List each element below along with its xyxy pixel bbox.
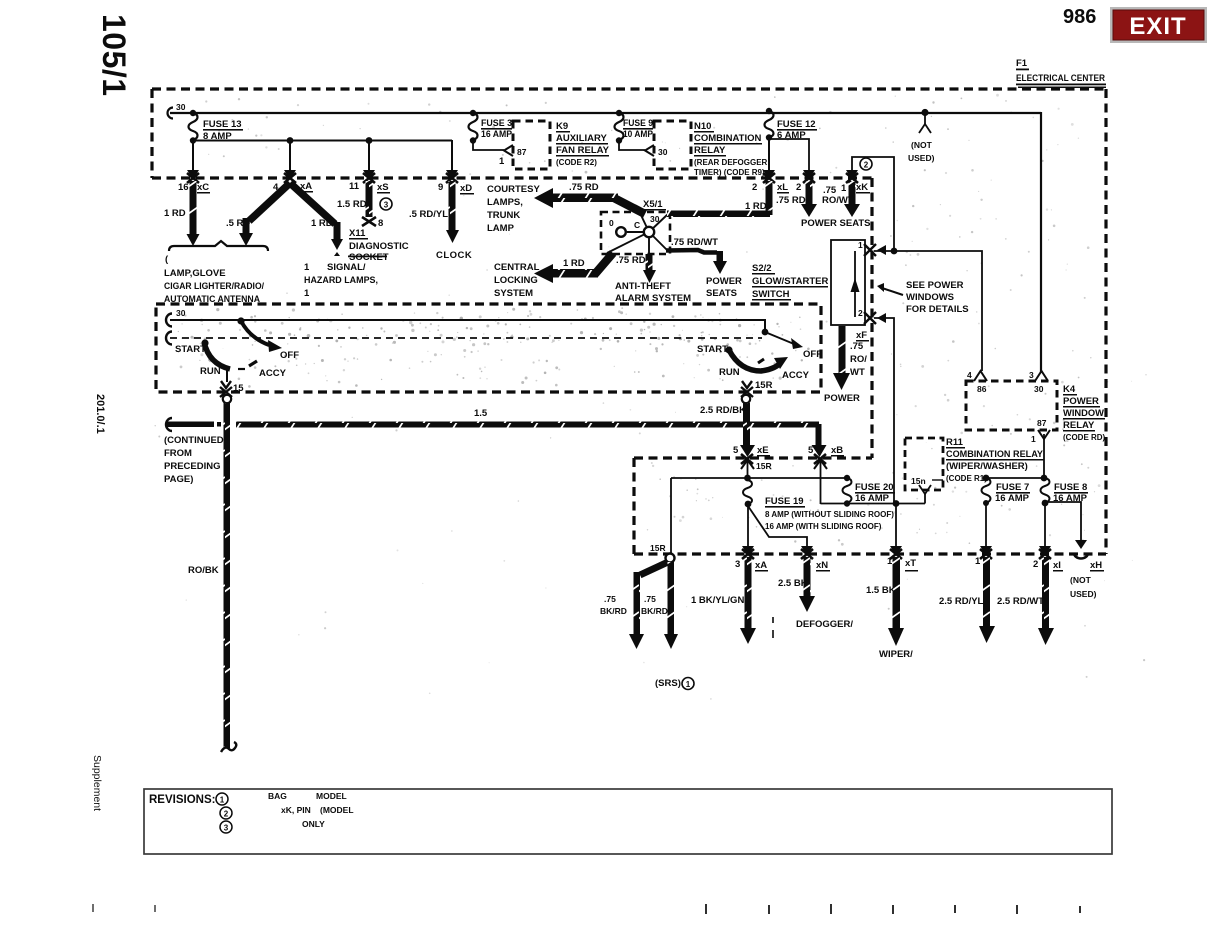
- terminal xT (1): [890, 546, 902, 559]
- svg-text:N10: N10: [694, 121, 711, 132]
- svg-text:K9: K9: [556, 121, 568, 132]
- SRS splice circle (15R): [666, 554, 675, 563]
- cable 1 RD from xL into X5/1: [667, 181, 773, 217]
- terminal xS (11): [363, 170, 375, 183]
- svg-text:START: START: [697, 344, 728, 355]
- terminal xB (5): [814, 454, 826, 464]
- wire: fuse7/fuse8 top bus: [986, 477, 1044, 479]
- wire: xB down to fuse20 bus: [820, 461, 822, 504]
- svg-text:LAMP,GLOVE: LAMP,GLOVE: [164, 268, 226, 279]
- svg-text:OFF: OFF: [280, 350, 299, 361]
- label F1 ELECTRICAL CENTER: [1016, 58, 1106, 88]
- svg-text:201.0/.1: 201.0/.1: [94, 394, 106, 434]
- S2/2 ignition switch dashed box: [156, 304, 821, 392]
- terminal 15 (ignition left): [220, 381, 232, 397]
- svg-text:xE: xE: [757, 445, 769, 456]
- svg-text:30: 30: [1034, 384, 1044, 394]
- label (SRS) circled 1: [655, 678, 694, 690]
- svg-text:AUTOMATIC ANTENNA: AUTOMATIC ANTENNA: [164, 294, 260, 305]
- svg-text:.75 RD/WT: .75 RD/WT: [671, 237, 718, 248]
- svg-text:xC: xC: [197, 182, 209, 193]
- svg-text:POWER: POWER: [706, 276, 742, 287]
- svg-text:ACCY: ACCY: [782, 370, 810, 381]
- label 1 xT: [887, 556, 918, 572]
- terminal xE (5): [741, 454, 753, 464]
- svg-text:COMBINATION RELAY: COMBINATION RELAY: [946, 449, 1044, 460]
- junction dot fuse19 bottom: [745, 501, 752, 508]
- bracket over lamp-glove group: [169, 241, 268, 251]
- fork pin K4 pin3: [1035, 371, 1048, 381]
- svg-text:(NOT: (NOT: [911, 140, 933, 150]
- label .75 BK/RD (left): [600, 594, 627, 616]
- svg-text:X5/1: X5/1: [643, 199, 663, 210]
- F1 electrical center dashed outline (top box): [152, 89, 1106, 554]
- svg-text:FAN RELAY: FAN RELAY: [556, 145, 610, 156]
- svg-text:2.5 BK: 2.5 BK: [778, 578, 808, 589]
- svg-text:4: 4: [273, 182, 279, 193]
- svg-text:xK: xK: [856, 182, 868, 193]
- svg-text:2: 2: [224, 810, 229, 819]
- wire: connector pin2 xF drop to lower box: [874, 318, 894, 503]
- svg-text:FUSE 8: FUSE 8: [1054, 482, 1087, 493]
- svg-text:CIGAR LIGHTER/RADIO/: CIGAR LIGHTER/RADIO/: [164, 281, 264, 292]
- cable 2.5 RD/WT from xI: [1038, 557, 1054, 645]
- svg-text:CLOCK: CLOCK: [436, 250, 472, 261]
- cable 2.5 BK from xN to defogger: [799, 557, 815, 612]
- svg-text:FUSE 9: FUSE 9: [623, 118, 653, 129]
- svg-text:xF: xF: [856, 330, 867, 341]
- svg-text:30: 30: [658, 147, 668, 157]
- ignition left: ACCY tick: [249, 361, 257, 366]
- wire: drop to xT: [895, 504, 897, 550]
- hook at dashed wire: [166, 332, 172, 345]
- svg-text:EXIT: EXIT: [1129, 13, 1186, 40]
- svg-text:FUSE 7: FUSE 7: [996, 482, 1029, 493]
- svg-text:ACCY: ACCY: [259, 368, 287, 379]
- svg-text:(SRS): (SRS): [655, 678, 681, 689]
- label .75 BK/RD (right): [641, 594, 668, 616]
- cable .75 RD from terminal 2 to power seats: [801, 181, 817, 217]
- X5/1 pin labels: [609, 214, 660, 230]
- svg-text:CENTRAL: CENTRAL: [494, 262, 540, 273]
- wire: lower-box 15R bus: [671, 477, 847, 479]
- label R11 relay: [911, 437, 1044, 486]
- connector pin X (power windows pin 2): [864, 312, 886, 324]
- svg-text:S2/2: S2/2: [752, 263, 772, 274]
- relay K9 dashed box: [513, 121, 550, 169]
- svg-text:2: 2: [1033, 559, 1038, 570]
- svg-text:COURTESY: COURTESY: [487, 184, 540, 195]
- svg-text:SEATS: SEATS: [706, 288, 737, 299]
- connector pin X (power windows pin 1): [864, 244, 886, 256]
- striped bus (right section to xB): [749, 422, 827, 458]
- svg-text:LAMPS,: LAMPS,: [487, 197, 523, 208]
- svg-text:6 AMP: 6 AMP: [777, 130, 806, 141]
- svg-text:10 AMP: 10 AMP: [623, 129, 654, 140]
- svg-text:Supplement: Supplement: [91, 755, 103, 811]
- wire: fuse13 sub-bus: [193, 140, 452, 142]
- svg-text:16 AMP (WITH SLIDING ROOF): 16 AMP (WITH SLIDING ROOF): [765, 522, 882, 531]
- label 16 xC: [178, 182, 210, 194]
- svg-text:15n: 15n: [911, 476, 926, 486]
- svg-text:1.5 RD: 1.5 RD: [337, 199, 367, 210]
- terminal 15R (ignition right): [741, 381, 753, 397]
- pin arrow N10 pin 30: [645, 145, 654, 156]
- up-arrow under xE terminal: [741, 460, 754, 469]
- svg-text:16 AMP: 16 AMP: [995, 493, 1030, 504]
- F1 lower fuse box dashed outline: [634, 458, 1106, 554]
- ignition left: START-RUN contact arc: [204, 342, 230, 369]
- wire: fuse20 bottom bus to R11: [821, 503, 926, 505]
- junction dot xA drop: [287, 137, 294, 144]
- svg-text:FUSE 19: FUSE 19: [765, 496, 804, 507]
- fuse F8 symbol: [1041, 478, 1089, 504]
- up-arrow under xB terminal: [814, 460, 827, 469]
- svg-text:xI: xI: [1053, 560, 1061, 571]
- revisions box: [144, 789, 1112, 854]
- svg-text:(WIPER/WASHER): (WIPER/WASHER): [946, 461, 1028, 472]
- ignition left: pivot wire to terminal 15: [226, 369, 228, 382]
- svg-text:(REAR DEFOGGER: (REAR DEFOGGER: [694, 158, 768, 167]
- label central locking system: [494, 262, 540, 299]
- svg-text:COMBINATION: COMBINATION: [694, 133, 762, 144]
- connector X5/1 star hub: [607, 213, 668, 255]
- label N10 relay: [694, 121, 768, 177]
- junction dot xT drop: [893, 500, 900, 507]
- svg-text:RO/: RO/: [850, 354, 867, 365]
- svg-text:BK/RD: BK/RD: [641, 606, 668, 616]
- fork pin R11: [919, 485, 931, 494]
- svg-text:16 AMP: 16 AMP: [855, 493, 890, 504]
- wire: drop to xD: [451, 140, 453, 173]
- svg-text:986: 986: [1063, 6, 1096, 28]
- cable Y-split from xA (.5 RD / 1 RD): [239, 183, 343, 256]
- svg-text:3: 3: [224, 824, 229, 833]
- svg-text:16 AMP: 16 AMP: [1053, 493, 1088, 504]
- connector circle below 15: [223, 395, 231, 403]
- svg-text:2.5 RD/BK: 2.5 RD/BK: [700, 405, 746, 416]
- label X11 DIAGNOSTIC SOCKET: [348, 228, 409, 263]
- svg-text:BAG: BAG: [268, 791, 287, 801]
- svg-text:.75: .75: [644, 594, 656, 604]
- continued-from stub bar: [167, 422, 221, 428]
- label power seats (X5/1): [706, 276, 742, 299]
- hook at ignition 30 wire: [166, 314, 172, 327]
- svg-text:FUSE 13: FUSE 13: [203, 119, 242, 130]
- terminal 1 (2.5 RD/YL): [980, 546, 992, 559]
- note see power windows for details: [877, 280, 969, 315]
- stub wire (not used): [924, 113, 926, 124]
- label 3 xA (lower): [735, 559, 768, 572]
- wire: xE down to fuse19 bus: [747, 461, 749, 479]
- svg-text:ELECTRICAL CENTER: ELECTRICAL CENTER: [1016, 73, 1105, 84]
- label signal hazard lamps: [304, 262, 378, 299]
- wire: main 30-bus across top of electrical center: [170, 112, 1041, 114]
- wire: fuse19 branch to xN: [748, 506, 807, 548]
- svg-text:xD: xD: [460, 183, 472, 194]
- svg-text:(CONTINUED: (CONTINUED: [164, 435, 224, 446]
- cable 1.5 RD from xS to X11 socket pin 8: [362, 181, 376, 226]
- wire: fuse8 bottom to xI: [1044, 503, 1046, 549]
- wire: inside power-windows connector: [854, 251, 856, 317]
- svg-text:MODEL: MODEL: [316, 791, 347, 801]
- X5/1 hub circle: [644, 227, 654, 237]
- wire: fuse7 bottom to terminal 1: [985, 503, 987, 549]
- svg-text:1 RD: 1 RD: [164, 208, 186, 219]
- cable .5 RD/YL from xD to clock: [446, 181, 459, 243]
- svg-text:1 RD: 1 RD: [745, 201, 767, 212]
- svg-text:REVISIONS:: REVISIONS:: [149, 794, 215, 806]
- svg-text:.75 RD: .75 RD: [776, 195, 806, 206]
- svg-text:xS: xS: [377, 182, 389, 193]
- terminal xK (1): [846, 170, 858, 183]
- svg-text:4: 4: [967, 370, 972, 380]
- wire: branch to xH (not used): [1045, 502, 1081, 546]
- label 9 xD: [438, 182, 474, 195]
- fuse F3 symbol: [469, 110, 513, 144]
- cable 1 BK/YL/GN from xA: [740, 557, 756, 644]
- label continued from preceding page: [164, 435, 224, 485]
- label K4 relay: [1063, 384, 1106, 442]
- label S2/2 glow starter switch: [752, 263, 828, 301]
- revisions text: [149, 791, 354, 833]
- svg-text:(CODE R2): (CODE R2): [556, 158, 597, 167]
- junction dot xS drop: [366, 137, 373, 144]
- wire: xK riser to K4 pin 4 feed: [852, 157, 894, 251]
- svg-text:.75: .75: [604, 594, 616, 604]
- svg-text:SIGNAL/: SIGNAL/: [327, 262, 366, 273]
- striped bus 1.5 (left section): [236, 422, 745, 428]
- wire: ignition 30 feed: [170, 320, 765, 331]
- circled note 2 at xK: [860, 158, 872, 170]
- label 5 xB: [808, 445, 844, 457]
- ignition left: dash before ACCY: [238, 368, 245, 370]
- svg-text:2: 2: [858, 308, 863, 318]
- svg-text:ONLY: ONLY: [302, 819, 325, 829]
- svg-text:1 BK/YL/GN: 1 BK/YL/GN: [691, 595, 744, 606]
- label anti-theft alarm system: [615, 281, 691, 304]
- cable 1 RD from xC to lamp group: [187, 181, 200, 246]
- svg-text:15R: 15R: [755, 380, 773, 391]
- svg-text:8 AMP: 8 AMP: [203, 131, 232, 142]
- fuse F12 symbol: [765, 108, 818, 141]
- svg-text:1: 1: [1031, 434, 1036, 444]
- terminal xN: [801, 546, 813, 559]
- svg-text:1: 1: [304, 262, 310, 273]
- cable .75 RO/WT from xK to power seats: [844, 181, 860, 217]
- svg-text:.75 RD: .75 RD: [569, 182, 599, 193]
- svg-text:FUSE 12: FUSE 12: [777, 119, 816, 130]
- svg-text:SWITCH: SWITCH: [752, 289, 790, 300]
- power windows connector box (solid): [831, 240, 865, 325]
- svg-text:1 RD: 1 RD: [563, 258, 585, 269]
- svg-text:xA: xA: [755, 560, 767, 571]
- svg-text:POWER: POWER: [1063, 396, 1099, 407]
- svg-text:FUSE 20: FUSE 20: [855, 482, 894, 493]
- svg-text:FOR DETAILS: FOR DETAILS: [906, 304, 969, 315]
- terminal xL (2): [763, 170, 775, 183]
- ignition right: ACCY tick: [758, 359, 764, 363]
- connector X5/1 dashed box: [601, 212, 670, 254]
- svg-text:.5 RD/YL: .5 RD/YL: [409, 209, 448, 220]
- svg-text:FUSE 3: FUSE 3: [481, 118, 512, 129]
- svg-text:PAGE): PAGE): [164, 474, 193, 485]
- svg-text:3: 3: [1029, 370, 1034, 380]
- svg-text:30: 30: [176, 308, 186, 318]
- svg-text:TIMER) (CODE R9): TIMER) (CODE R9): [694, 168, 765, 177]
- wire: riser to R11 pin: [924, 494, 926, 504]
- label 11 xS: [349, 181, 390, 194]
- svg-text:2.5 RD/YL: 2.5 RD/YL: [939, 596, 984, 607]
- label xN: [816, 560, 830, 572]
- svg-text:ANTI-THEFT: ANTI-THEFT: [615, 281, 671, 292]
- cable .75 BK/RD from SRS splice (right): [664, 562, 678, 649]
- svg-text:2.5 RD/WT: 2.5 RD/WT: [997, 596, 1044, 607]
- label .75 RO/ WT (xF): [850, 341, 867, 378]
- junction dot xE bus: [744, 475, 751, 482]
- svg-text:8 AMP (WITHOUT SLIDING ROOF): 8 AMP (WITHOUT SLIDING ROOF): [765, 510, 894, 519]
- svg-text:(CODE R1): (CODE R1): [946, 474, 987, 483]
- big arrow to courtesy lamps (.75 RD): [534, 188, 645, 214]
- label 4 xA: [273, 181, 313, 193]
- svg-text:X11: X11: [349, 228, 366, 239]
- svg-text:16 AMP: 16 AMP: [481, 129, 513, 140]
- fork pin K4 pin4: [974, 371, 987, 381]
- fuse F13 symbol: [189, 110, 244, 144]
- bottom alignment tick marks: [93, 904, 1080, 914]
- fuse F7 symbol: [982, 478, 1031, 504]
- feed-through arrow inside connector: [851, 278, 860, 292]
- wire: connector pin1 across to K4 pin4 drop: [874, 251, 982, 371]
- svg-text:9: 9: [438, 182, 443, 193]
- svg-text:RO/BK: RO/BK: [188, 565, 219, 576]
- wire: fuse12 branch to terminal 2: [769, 139, 809, 171]
- cable .75 RD to anti-theft alarm: [643, 254, 656, 283]
- svg-text:5: 5: [808, 445, 814, 456]
- svg-text:1 RD: 1 RD: [311, 218, 333, 229]
- svg-text:xL: xL: [777, 182, 788, 193]
- hook at left end of 30-bus: [168, 108, 174, 119]
- svg-text:1: 1: [841, 183, 847, 194]
- cable .75 RO/WT POWER feed (xF): [833, 326, 850, 390]
- wire: fuse19 bottom to xA: [747, 503, 749, 550]
- dashed wire inside ignition box: [170, 337, 762, 339]
- fuse F19 symbol: [743, 480, 894, 531]
- svg-text:RELAY: RELAY: [1063, 420, 1095, 431]
- label .75 1 RO/WT xK: [822, 182, 870, 206]
- svg-text:105/1: 105/1: [96, 14, 132, 97]
- svg-text:GLOW/STARTER: GLOW/STARTER: [752, 276, 828, 287]
- big arrow to central locking system (1 RD): [534, 253, 613, 283]
- svg-text:RUN: RUN: [719, 367, 740, 378]
- svg-text:WINDOW: WINDOW: [1063, 408, 1104, 419]
- svg-text:87: 87: [1037, 418, 1047, 428]
- svg-text:OFF: OFF: [803, 349, 822, 360]
- svg-text:BK/RD: BK/RD: [600, 606, 627, 616]
- X5/1 pin 0 circle: [616, 227, 626, 237]
- svg-text:C: C: [634, 220, 640, 230]
- svg-text:DIAGNOSTIC: DIAGNOSTIC: [349, 241, 409, 252]
- svg-text:1: 1: [220, 796, 225, 805]
- label pin 2 xF: [856, 308, 869, 342]
- label 2 xI: [1033, 559, 1063, 572]
- cable RO/BK long drop: [221, 403, 236, 752]
- svg-text:30: 30: [176, 102, 186, 112]
- svg-text:8: 8: [378, 218, 383, 229]
- svg-text:TRUNK: TRUNK: [487, 210, 520, 221]
- wire: drop to xA: [289, 140, 291, 173]
- connector circle below 15R: [742, 395, 750, 403]
- svg-text:RO/WT: RO/WT: [822, 195, 854, 206]
- svg-text:SEE POWER: SEE POWER: [906, 280, 964, 291]
- junction dot fuse8 bottom: [1042, 500, 1049, 507]
- svg-text:2: 2: [796, 182, 801, 193]
- svg-text:F1: F1: [1016, 58, 1028, 69]
- svg-text:ALARM SYSTEM: ALARM SYSTEM: [615, 293, 691, 304]
- junction dot at (894,251): [891, 248, 898, 255]
- svg-text:.75 RD: .75 RD: [616, 255, 646, 266]
- svg-text:15R: 15R: [756, 461, 772, 471]
- svg-text:1: 1: [975, 556, 981, 567]
- svg-text:1: 1: [858, 240, 863, 250]
- svg-text:1: 1: [887, 556, 893, 567]
- svg-text:2: 2: [864, 161, 869, 170]
- svg-text:POWER: POWER: [824, 393, 860, 404]
- svg-text:FROM: FROM: [164, 448, 192, 459]
- svg-text:K4: K4: [1063, 384, 1076, 395]
- svg-text:LAMP: LAMP: [487, 223, 515, 234]
- wire: drop to xS: [368, 140, 370, 173]
- wire: main bus turns down to K4 pin 3: [1040, 112, 1042, 372]
- svg-text:WT: WT: [850, 367, 865, 378]
- terminal xD (9): [446, 170, 458, 183]
- terminal 2 (.75 RD): [803, 170, 815, 183]
- cable .75 RD/WT to power seats (from X5/1): [666, 250, 727, 274]
- svg-text:(MODEL: (MODEL: [320, 805, 354, 815]
- svg-text:USED): USED): [1070, 589, 1097, 599]
- svg-text:16: 16: [178, 182, 189, 193]
- svg-text:1.5: 1.5: [474, 408, 488, 419]
- svg-text:1: 1: [686, 680, 691, 689]
- svg-text:3: 3: [384, 201, 389, 210]
- ignition left: START contact blob: [201, 339, 208, 346]
- terminal xC (16): [187, 170, 199, 183]
- fuse F20 symbol: [843, 475, 896, 507]
- circled note 3 (xS): [380, 198, 392, 210]
- label courtesy lamps trunk lamp: [487, 184, 540, 234]
- continued-from stub hook: [166, 418, 172, 431]
- wire: K4 pin1 down to fuse bus: [1043, 434, 1045, 478]
- svg-text:(NOT: (NOT: [1070, 575, 1092, 585]
- wire: fuse12 to xL: [768, 137, 770, 171]
- svg-text:AUXILIARY: AUXILIARY: [556, 133, 608, 144]
- svg-text:SYSTEM: SYSTEM: [494, 288, 533, 299]
- svg-text:HAZARD LAMPS,: HAZARD LAMPS,: [304, 275, 378, 286]
- wire: drop to xC: [192, 140, 194, 173]
- fork pin K4 pin1: [1038, 430, 1050, 439]
- svg-text:R11: R11: [946, 437, 964, 448]
- svg-text:PRECEDING: PRECEDING: [164, 461, 220, 472]
- relay K4 dashed box: [966, 381, 1057, 430]
- svg-text:xA: xA: [300, 181, 312, 192]
- svg-text:WINDOWS: WINDOWS: [906, 292, 954, 303]
- fork terminal (not used, top): [919, 124, 931, 133]
- cable 2.5 RD/YL from terminal 1: [979, 557, 995, 643]
- terminal xH cup (not used): [1074, 540, 1088, 559]
- ignition right: OFF pointer arm: [762, 329, 803, 349]
- terminal xA (4): [284, 170, 296, 183]
- svg-text:30: 30: [650, 214, 660, 224]
